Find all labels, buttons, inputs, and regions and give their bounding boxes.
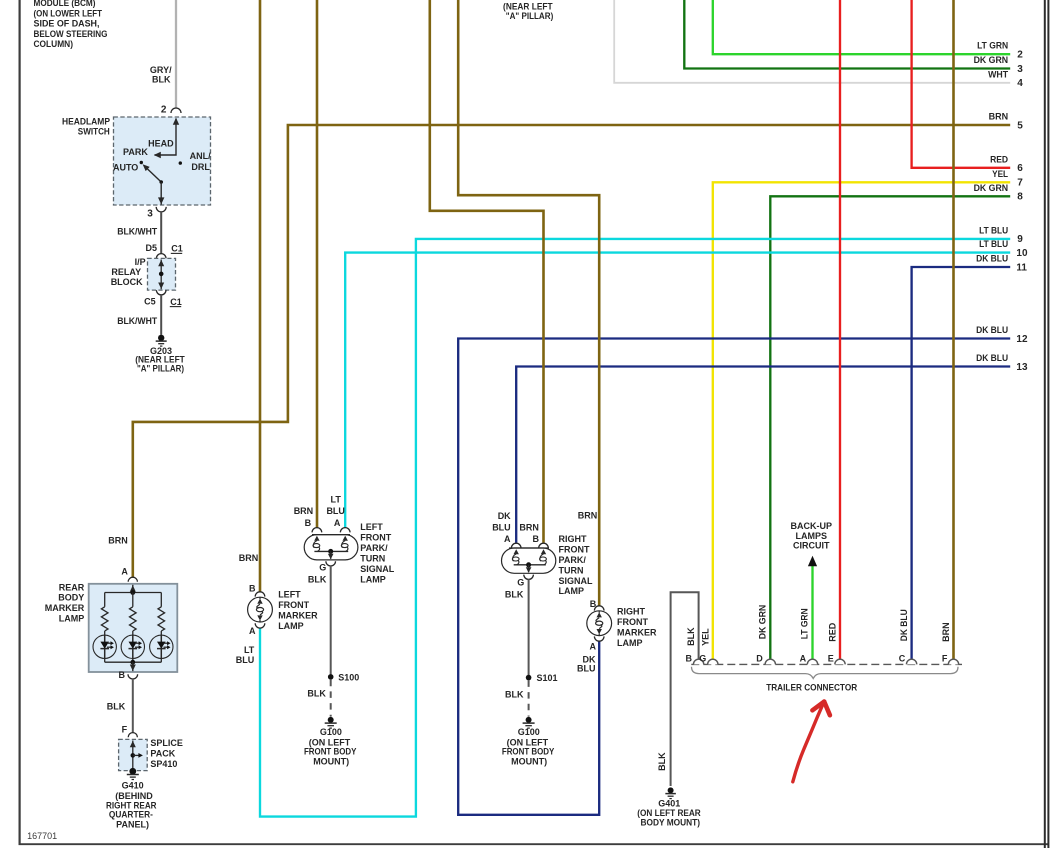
left front park/turn signal lamp (304, 522, 395, 584)
svg-text:DRL: DRL (191, 162, 210, 172)
wire BRN to right front park/turn lamp pin B (430, 0, 544, 544)
svg-text:BRN: BRN (108, 536, 128, 546)
svg-text:BLU: BLU (577, 664, 596, 674)
svg-text:FRONT: FRONT (617, 617, 648, 627)
svg-text:FRONT: FRONT (278, 600, 309, 610)
svg-text:BODY: BODY (58, 593, 84, 603)
wire WHT circuit 4 (614, 0, 1023, 89)
svg-text:MODULE (BCM): MODULE (BCM) (34, 0, 96, 8)
svg-text:"A" PILLAR): "A" PILLAR) (506, 11, 554, 21)
splice pack SP410 (119, 733, 183, 771)
svg-text:SP410: SP410 (150, 759, 177, 769)
wire LT GRN circuit 2 (713, 0, 1023, 61)
svg-text:BRN: BRN (239, 553, 259, 563)
svg-text:4: 4 (1017, 78, 1023, 89)
svg-text:RIGHT: RIGHT (559, 534, 588, 544)
svg-text:BLOCK: BLOCK (111, 277, 143, 287)
svg-text:BRN: BRN (941, 622, 951, 642)
svg-text:3: 3 (147, 208, 153, 219)
svg-text:A: A (504, 534, 511, 544)
trailer connector pin E (828, 654, 845, 665)
ground G410 (106, 768, 157, 829)
svg-text:BRN: BRN (294, 506, 314, 516)
trailer connector pin A (800, 654, 818, 665)
svg-text:RED: RED (990, 154, 1008, 164)
svg-text:8: 8 (1017, 192, 1023, 203)
svg-text:LAMP: LAMP (559, 586, 585, 596)
wire BLK dashed S100 to ground G100 (307, 680, 330, 717)
svg-text:LAMP: LAMP (360, 574, 386, 584)
svg-text:BLU: BLU (326, 506, 345, 516)
red annotation arrow pointing at trailer connector (793, 702, 830, 782)
svg-text:A: A (590, 642, 597, 652)
svg-text:PANEL): PANEL) (116, 819, 149, 829)
wire DK BLU circuit 11 to trailer connector pin C (899, 254, 1028, 660)
svg-text:SIGNAL: SIGNAL (360, 564, 395, 574)
wire RED to trailer connector pin E (827, 0, 840, 659)
wire BLK dashed S101 to ground G100 (505, 680, 529, 716)
svg-text:BLK: BLK (505, 690, 524, 700)
svg-text:MARKER: MARKER (278, 610, 318, 620)
svg-text:A: A (334, 518, 341, 528)
wire BLK/WHT relay block C5 to ground G203 (117, 295, 161, 335)
svg-text:CIRCUIT: CIRCUIT (793, 541, 830, 551)
wire BLK right park/turn lamp pin G to S101 (505, 579, 529, 677)
ground G203 (135, 335, 185, 374)
wire RED circuit 6 (912, 0, 1024, 174)
svg-text:F: F (122, 725, 128, 735)
svg-text:G410: G410 (122, 781, 144, 791)
svg-text:ANL/: ANL/ (190, 151, 211, 161)
svg-text:DK BLU: DK BLU (976, 325, 1008, 335)
svg-text:BLK: BLK (505, 590, 524, 600)
wire BLK rear body marker lamp to splice pack F (107, 679, 133, 735)
svg-text:C1: C1 (170, 297, 182, 307)
svg-text:DK BLU: DK BLU (899, 609, 909, 641)
wire BRN to left front park/turn lamp pin B (294, 0, 317, 528)
rear body marker lamp (45, 577, 177, 680)
headlamp switch pin 3 (147, 207, 166, 220)
svg-text:B: B (305, 518, 312, 528)
I/P relay block (111, 257, 176, 290)
svg-text:(ON LOWER LEFT: (ON LOWER LEFT (34, 9, 103, 19)
svg-text:A: A (121, 567, 128, 577)
wire GRY/BLK from BCM to headlamp switch pin 2 (150, 0, 176, 108)
svg-text:SIGNAL: SIGNAL (559, 576, 594, 586)
text diagram id 167701 (27, 831, 57, 841)
svg-text:LT: LT (331, 495, 342, 505)
svg-text:AUTO: AUTO (113, 163, 138, 173)
svg-text:DK GRN: DK GRN (974, 55, 1009, 65)
svg-text:BELOW STEERING: BELOW STEERING (34, 29, 108, 39)
svg-text:D5: D5 (145, 243, 157, 253)
svg-text:MOUNT): MOUNT) (313, 756, 349, 766)
svg-text:BLK: BLK (686, 627, 696, 646)
wire YEL circuit 7 to trailer connector pin G (701, 169, 1024, 660)
svg-text:A: A (800, 654, 807, 664)
svg-text:11: 11 (1016, 262, 1027, 273)
svg-text:G100: G100 (320, 727, 342, 737)
trailer connector pin D (756, 654, 775, 665)
svg-text:YEL: YEL (701, 628, 711, 646)
trailer connector pin G (699, 654, 718, 665)
svg-text:BLK: BLK (308, 575, 327, 585)
svg-text:PACK: PACK (150, 748, 175, 758)
svg-text:BRN: BRN (989, 112, 1009, 122)
svg-text:TRAILER CONNECTOR: TRAILER CONNECTOR (766, 683, 857, 693)
svg-text:BLU: BLU (492, 522, 511, 532)
right front marker lamp (587, 606, 657, 648)
svg-text:BLK: BLK (657, 752, 667, 771)
svg-text:MARKER: MARKER (45, 603, 85, 613)
right front park/turn signal lamp (502, 534, 594, 596)
svg-text:5: 5 (1017, 120, 1023, 131)
svg-text:FRONT: FRONT (360, 533, 391, 543)
svg-text:FRONT BODY: FRONT BODY (304, 746, 357, 756)
wire BLK left park/turn lamp pin G to S100 (308, 566, 331, 677)
svg-text:13: 13 (1016, 362, 1028, 373)
svg-text:MARKER: MARKER (617, 627, 657, 637)
trailer connector pin B (685, 654, 703, 665)
wire DK GRN circuit 8 to trailer connector pin D (758, 183, 1024, 660)
svg-text:9: 9 (1017, 234, 1023, 245)
wire BLK trailer connector pin B to ground G401 (657, 592, 698, 786)
svg-text:2: 2 (1017, 50, 1023, 61)
wire LT BLU circuit 10 to left front park/turn lamp pin A (326, 239, 1028, 528)
svg-text:B: B (249, 583, 256, 593)
svg-text:3: 3 (1017, 64, 1023, 75)
connector D5 C1 at relay block (145, 243, 182, 258)
svg-text:G: G (319, 562, 326, 572)
left front marker lamp (248, 589, 319, 631)
svg-text:HEADLAMP: HEADLAMP (62, 116, 110, 126)
wire BRN to right front marker lamp pin B (458, 0, 599, 609)
svg-text:SWITCH: SWITCH (78, 126, 110, 136)
svg-text:10: 10 (1016, 248, 1028, 259)
svg-text:2: 2 (161, 104, 167, 115)
svg-text:DK GRN: DK GRN (758, 605, 768, 640)
svg-text:RED: RED (827, 622, 837, 642)
wire DK BLU circuit 13 to right front park/turn lamp pin A (492, 353, 1028, 544)
svg-text:"A" PILLAR): "A" PILLAR) (137, 364, 184, 374)
svg-text:BODY MOUNT): BODY MOUNT) (641, 817, 701, 827)
svg-text:REAR: REAR (59, 582, 85, 592)
svg-text:6: 6 (1017, 163, 1023, 174)
svg-text:LAMP: LAMP (59, 613, 85, 623)
wire BRN to left front marker lamp pin B (239, 0, 260, 593)
svg-text:DK BLU: DK BLU (976, 353, 1008, 363)
svg-text:B: B (532, 534, 539, 544)
svg-text:DK: DK (498, 511, 511, 521)
svg-text:PARK/: PARK/ (360, 543, 388, 553)
svg-text:MOUNT): MOUNT) (511, 756, 547, 766)
wire DK GRN circuit 3 (684, 0, 1023, 75)
svg-text:BLK: BLK (107, 701, 126, 711)
headlamp switch (62, 116, 211, 205)
wire BLK/WHT switch pin 3 to I/P relay block D5 (117, 212, 161, 254)
svg-text:BLK/WHT: BLK/WHT (117, 316, 157, 326)
svg-text:LT BLU: LT BLU (979, 239, 1008, 249)
svg-text:TURN: TURN (360, 553, 385, 563)
svg-text:TURN: TURN (559, 565, 584, 575)
svg-text:BLK: BLK (307, 689, 326, 699)
trailer connector pin F (942, 654, 959, 665)
svg-text:FRONT: FRONT (559, 544, 590, 554)
ground G100 left (304, 717, 357, 766)
svg-text:BLK/WHT: BLK/WHT (117, 226, 157, 236)
svg-text:G: G (699, 654, 706, 664)
svg-text:BRN: BRN (578, 511, 598, 521)
svg-text:RELAY: RELAY (111, 267, 141, 277)
svg-text:PARK/: PARK/ (559, 555, 587, 565)
text (NEAR LEFT A PILLAR) top center (503, 1, 553, 21)
svg-text:PARK: PARK (123, 147, 148, 157)
headlamp switch pin 2 (161, 104, 181, 115)
svg-text:HEAD: HEAD (148, 138, 174, 148)
svg-text:S100: S100 (338, 672, 359, 682)
svg-text:E: E (828, 654, 834, 664)
trailer connector (691, 663, 962, 665)
svg-text:A: A (249, 626, 256, 636)
ground G100 right (502, 717, 555, 766)
connector C5 C1 below relay block (144, 290, 182, 307)
svg-text:C1: C1 (171, 244, 183, 254)
wire LT BLU circuit 9 to left front marker lamp pin A (236, 225, 1023, 816)
svg-text:C5: C5 (144, 296, 156, 306)
svg-text:RIGHT: RIGHT (617, 607, 646, 617)
svg-text:C: C (899, 654, 906, 664)
wire BRN circuit 5 to rear body marker lamp pin A (108, 112, 1023, 578)
svg-text:COLUMN): COLUMN) (34, 39, 74, 49)
svg-text:DK GRN: DK GRN (974, 183, 1009, 193)
wire BRN to trailer connector pin F (941, 0, 953, 659)
text BCM module location note (34, 0, 108, 49)
svg-text:SPLICE: SPLICE (150, 738, 183, 748)
svg-text:BLU: BLU (236, 655, 255, 665)
svg-text:167701: 167701 (27, 831, 57, 841)
svg-text:S101: S101 (537, 673, 558, 683)
svg-text:B: B (119, 670, 126, 680)
trailer connector pin C (899, 654, 917, 665)
svg-text:(NEAR LEFT: (NEAR LEFT (503, 1, 553, 11)
svg-text:LEFT: LEFT (360, 522, 383, 532)
svg-text:WHT: WHT (988, 69, 1008, 79)
svg-text:YEL: YEL (992, 169, 1008, 179)
svg-text:LEFT: LEFT (278, 589, 301, 599)
svg-text:LT GRN: LT GRN (799, 608, 809, 639)
svg-text:G: G (517, 578, 524, 588)
svg-text:BRN: BRN (519, 522, 539, 532)
svg-text:D: D (756, 654, 763, 664)
svg-text:G401: G401 (658, 798, 680, 808)
svg-text:SIDE OF DASH,: SIDE OF DASH, (34, 19, 100, 29)
svg-text:BLK: BLK (152, 74, 171, 84)
svg-text:12: 12 (1016, 334, 1028, 345)
wire LT GRN back-up lamps circuit to trailer connector pin A (791, 521, 833, 660)
svg-text:QUARTER-: QUARTER- (109, 810, 153, 820)
svg-text:LAMP: LAMP (617, 638, 643, 648)
svg-text:LT GRN: LT GRN (977, 41, 1008, 51)
svg-text:LAMPS: LAMPS (796, 531, 828, 541)
svg-text:I/P: I/P (135, 257, 146, 267)
svg-text:LT: LT (244, 645, 255, 655)
svg-text:G100: G100 (518, 727, 540, 737)
splice S100 (328, 672, 359, 682)
splice S101 (526, 673, 558, 683)
svg-text:B: B (685, 654, 692, 664)
svg-text:BACK-UP: BACK-UP (791, 521, 833, 531)
ground G401 (637, 787, 701, 827)
svg-text:7: 7 (1017, 178, 1023, 189)
wire DK BLU circuit 12 to right front marker lamp pin A (458, 325, 1028, 815)
svg-text:LT BLU: LT BLU (979, 225, 1008, 235)
svg-text:LAMP: LAMP (278, 621, 304, 631)
svg-text:F: F (942, 654, 948, 664)
headlamp switch internal contacts (113, 118, 211, 205)
svg-text:FRONT BODY: FRONT BODY (502, 746, 555, 756)
svg-text:DK BLU: DK BLU (976, 254, 1008, 264)
trailer connector brace and label (692, 667, 959, 693)
